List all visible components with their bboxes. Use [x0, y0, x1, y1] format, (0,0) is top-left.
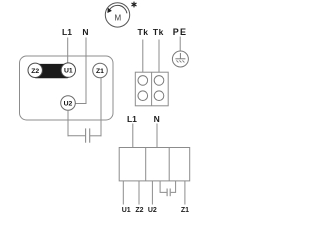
svg-text:U1: U1: [64, 68, 73, 75]
PE terminal: [172, 51, 188, 67]
terminal U1: [61, 63, 75, 77]
wire to U2 terminal: [151, 181, 153, 205]
wire U2 down: [67, 110, 69, 136]
svg-text:U2: U2: [64, 101, 73, 108]
wire Tk2: [158, 40, 160, 73]
svg-text:Tk: Tk: [153, 27, 164, 37]
supply terminal block: [119, 148, 190, 181]
capacitor C1: [68, 128, 102, 142]
wire to Z2 terminal: [138, 181, 140, 205]
wire PE: [179, 37, 181, 52]
terminal Z1: [93, 63, 108, 78]
wire to U1 terminal: [122, 181, 124, 205]
link bar Z2-U1: [34, 64, 69, 78]
svg-text:M: M: [114, 13, 121, 22]
svg-text:L1: L1: [127, 114, 137, 124]
motor terminal box: [20, 56, 114, 120]
terminal Z2: [28, 63, 42, 77]
thermal contact terminal box Tk: [135, 72, 168, 106]
capacitor C2: [160, 181, 176, 196]
wire N supply: [156, 124, 158, 148]
svg-text:U2: U2: [148, 207, 157, 214]
svg-text:N: N: [154, 114, 160, 124]
Tk terminal top-right: [154, 76, 164, 86]
Tk terminal bottom-left: [138, 91, 148, 101]
motor rotation arrow: [107, 5, 127, 13]
svg-text:Z2: Z2: [31, 68, 39, 75]
svg-text:L1: L1: [62, 27, 72, 37]
wire L1 to U1: [67, 38, 69, 64]
asterisk marker: [132, 2, 137, 8]
wire L1 supply: [132, 124, 134, 148]
wire Z1 down: [100, 78, 102, 137]
Tk terminal bottom-right: [154, 91, 164, 101]
svg-text:N: N: [82, 27, 88, 37]
Tk terminal top-left: [138, 76, 148, 86]
wire N to U2: [76, 38, 87, 104]
wire Tk1: [142, 40, 144, 73]
svg-text:U1: U1: [122, 207, 131, 214]
svg-text:Z1: Z1: [96, 68, 104, 75]
svg-text:Tk: Tk: [137, 27, 148, 37]
terminal U2: [61, 96, 76, 111]
motor M1: [105, 3, 129, 27]
svg-text:Z2: Z2: [135, 207, 143, 214]
svg-text:PE: PE: [173, 27, 187, 37]
svg-text:Z1: Z1: [181, 207, 189, 214]
wire to Z1 terminal: [184, 181, 186, 205]
